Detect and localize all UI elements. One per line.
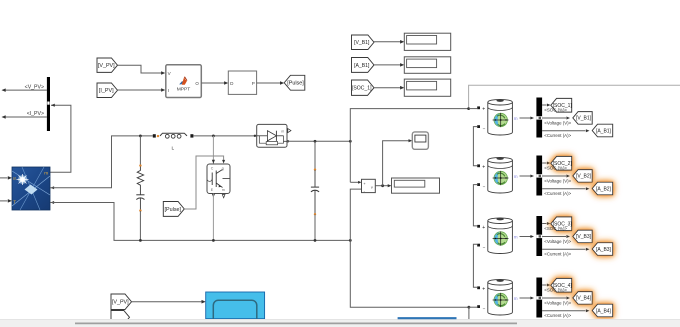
- wire: junction to battery1 +: [469, 108, 477, 110]
- wire: PV + up to top rail: [50, 136, 153, 188]
- goto tag SOC_1: [551, 98, 573, 112]
- IGBT port label g: [222, 166, 224, 170]
- svg-text:[V_PV]: [V_PV]: [98, 63, 115, 69]
- scrollbar thumb: [75, 322, 517, 324]
- voltage measurement block VM1: [362, 179, 376, 193]
- PV port label m: [44, 171, 48, 176]
- wire: VM1 output to scope: [383, 139, 413, 186]
- node: junction at output capacitor: [314, 140, 317, 143]
- PV voltage scope block (cyan): [206, 292, 265, 319]
- battery block B2: [488, 157, 513, 193]
- wire: battery B2 m to bus selector: [520, 174, 535, 177]
- wire: diode output rail: [287, 140, 350, 142]
- svg-text:<SOC (%)>: <SOC (%)>: [544, 166, 567, 171]
- node: rail junction at RC branch: [139, 135, 142, 138]
- goto tag A_B2: [592, 182, 613, 195]
- svg-text:T: T: [13, 199, 16, 204]
- wire: A_B1 signal: [542, 129, 589, 132]
- goto tag SOC_4: [551, 278, 573, 292]
- signal label Current (A) row 2: [544, 191, 571, 196]
- bus selector row 2: [536, 156, 542, 196]
- goto tag V_B4: [573, 292, 592, 305]
- wire: V_PV output to left edge: [2, 88, 47, 92]
- node: junction diode rail / measure vertical: [349, 140, 352, 143]
- node: bottom rail at RC branch: [139, 239, 142, 242]
- node: rail junction at IGBT branch: [212, 135, 215, 138]
- wire: SOC_4 signal: [542, 283, 550, 286]
- wire: A_B1 to display: [374, 63, 404, 67]
- svg-text:[A_B1]: [A_B1]: [354, 63, 370, 69]
- signal label SOC (%) row 2: [544, 166, 567, 171]
- resistor R (input branch): [137, 167, 143, 190]
- signal label SOC (%) row 1: [544, 108, 567, 113]
- goto tag A_B4: [592, 304, 613, 317]
- signal label Current (A) row 1: [544, 133, 571, 138]
- display block D2: [404, 57, 450, 74]
- PWM generator block D/P: [228, 71, 256, 94]
- MPPT port label O: [195, 81, 199, 86]
- battery block B4: [488, 279, 513, 315]
- svg-text:<Current (A)>: <Current (A)>: [544, 313, 571, 318]
- wire: RC branch to bottom rail: [139, 211, 141, 240]
- wire: battery4 - junction stub down: [468, 307, 470, 319]
- svg-text:<Voltage (V)>: <Voltage (V)>: [544, 178, 571, 183]
- svg-text:g: g: [222, 166, 224, 170]
- PV + port marker: [51, 186, 55, 189]
- svg-text:m: m: [281, 129, 284, 133]
- canvas bottom strip: [0, 319, 680, 327]
- signal label SOC (%) row 3: [544, 226, 567, 231]
- blue block edge peeking above strip: [398, 317, 457, 319]
- inductor L right port: [190, 134, 193, 137]
- signal label Current (A) row 4: [544, 313, 571, 318]
- node: battery4 - junction: [468, 306, 471, 309]
- bus selector row 4: [536, 278, 542, 318]
- display block D1: [404, 33, 450, 50]
- wire: SOC_1 to display: [374, 86, 404, 90]
- signal label Current (A) row 3: [544, 252, 571, 257]
- wire: SOC_1 signal: [542, 103, 550, 106]
- bus selector row 1: [536, 98, 542, 138]
- IGBT port label E: [211, 188, 214, 192]
- wire: A_B2 signal: [542, 187, 589, 190]
- wire: VM1 output to display: [375, 184, 391, 187]
- IGBT m unconnected arrow: [222, 195, 225, 198]
- wire: Pulse tag to IGBT gate: [184, 156, 225, 209]
- svg-text:−: −: [483, 127, 486, 132]
- display block D3: [404, 79, 450, 96]
- RC branch top port (orange): [139, 164, 141, 166]
- svg-text:I: I: [168, 88, 169, 93]
- svg-text:[A_B4]: [A_B4]: [596, 308, 612, 314]
- svg-text:[V_B3]: [V_B3]: [576, 234, 592, 240]
- svg-text:Ir: Ir: [13, 176, 16, 181]
- IGBT block Q1: [207, 164, 230, 194]
- wire: SOC_3 signal: [542, 222, 550, 225]
- wire: battery 1-2 series link: [473, 127, 477, 166]
- MPPT port label V: [168, 71, 172, 76]
- MPPT port label I: [168, 88, 169, 93]
- svg-text:−: −: [483, 245, 486, 250]
- node: bottom rail at cap branch: [314, 239, 317, 242]
- svg-text:+: +: [482, 164, 485, 170]
- wire: battery 3-4 series link: [473, 244, 477, 287]
- svg-text:m: m: [514, 296, 518, 301]
- wire: Ir input from left edge: [0, 176, 12, 180]
- wire: battery B3 m to bus selector: [520, 235, 535, 238]
- diode block D1: [257, 124, 287, 147]
- IGBT port label C: [211, 166, 214, 170]
- svg-text:<V_PV>: <V_PV>: [25, 84, 44, 90]
- signal label Voltage (V) row 1: [544, 120, 571, 125]
- input RC branch: wire from rail: [139, 136, 141, 165]
- bus selector row 3: [536, 216, 542, 256]
- wire: rail to IGBT collector: [212, 136, 215, 164]
- from tag V_PV (MPPT input): [97, 58, 118, 72]
- node: battery1 + junction: [467, 107, 470, 110]
- battery B1 m port label: [514, 116, 518, 121]
- battery B2 - port marker: [477, 183, 485, 189]
- svg-text:[V_PV]: [V_PV]: [112, 300, 129, 306]
- wire: SOC_2 signal: [542, 161, 550, 164]
- wire: MPPT O to PWM D: [201, 81, 228, 85]
- battery B4 - port marker: [477, 305, 485, 311]
- svg-text:m: m: [222, 188, 225, 192]
- goto tag V_B1: [573, 112, 592, 125]
- label L: [171, 146, 174, 152]
- svg-text:P: P: [252, 81, 255, 86]
- wire: DC+ node up and off right edge: [469, 85, 680, 108]
- node label I_PV: [27, 111, 44, 117]
- svg-text:<SOC (%)>: <SOC (%)>: [544, 288, 567, 293]
- wire: IGBT emitter to bottom rail: [212, 194, 215, 241]
- battery B4 + port marker: [477, 286, 485, 292]
- svg-text:<SOC (%)>: <SOC (%)>: [544, 226, 567, 231]
- svg-text:−: −: [483, 185, 486, 190]
- goto tag A_B1: [592, 124, 613, 137]
- svg-text:<Voltage (V)>: <Voltage (V)>: [544, 300, 571, 305]
- inductor L: [160, 133, 187, 138]
- diode m port label: [281, 129, 284, 133]
- battery B3 - port marker: [477, 244, 485, 250]
- svg-text:+: +: [482, 106, 485, 112]
- wire: A_B3 signal: [542, 248, 589, 251]
- svg-text:<Current (A)>: <Current (A)>: [544, 191, 571, 196]
- wire: V_PV tag to MPPT V: [118, 65, 166, 75]
- svg-text:v: v: [371, 185, 373, 189]
- wire: V_B1 signal: [542, 116, 570, 119]
- wire: V_B3 signal: [542, 235, 570, 238]
- signal label Voltage (V) row 2: [544, 178, 571, 183]
- battery block B3: [488, 218, 513, 254]
- svg-text:[V_B1]: [V_B1]: [576, 116, 592, 122]
- goto tag V_B2: [573, 170, 592, 183]
- PV array block: [12, 167, 50, 210]
- svg-text:[A_B1]: [A_B1]: [596, 128, 612, 134]
- wire: DC+ to battery string: [350, 109, 468, 142]
- svg-text:[SOC_1]: [SOC_1]: [352, 86, 372, 92]
- MPPT controller block U1: [166, 65, 202, 98]
- wire: battery B4 m to bus selector: [520, 296, 535, 299]
- battery B4 m port label: [514, 296, 518, 301]
- svg-text:O: O: [195, 81, 199, 86]
- battery block B1: [488, 99, 513, 135]
- svg-text:[A_B2]: [A_B2]: [596, 186, 612, 192]
- wire: V_B2 signal: [542, 174, 570, 177]
- svg-text:[Pulse]: [Pulse]: [165, 207, 182, 213]
- svg-text:MPPT: MPPT: [177, 87, 191, 93]
- signal label Voltage (V) row 3: [544, 239, 571, 244]
- node label V_PV: [25, 84, 44, 90]
- capacitor C out: [311, 170, 319, 214]
- svg-text:m: m: [514, 116, 518, 121]
- svg-text:m: m: [514, 174, 518, 179]
- bottom rail wire: [50, 203, 350, 241]
- scope block: [412, 132, 428, 149]
- node: bottom rail corner: [349, 239, 352, 242]
- wire: inductor to diode (top rail): [193, 135, 256, 137]
- output capacitor branch wire: [314, 141, 316, 169]
- from tag SOC_1 (display source): [352, 80, 375, 95]
- wire: return rail to battery4 -: [350, 240, 469, 307]
- diode output node: [287, 140, 289, 142]
- svg-text:[V_B2]: [V_B2]: [576, 174, 592, 180]
- display block DC voltage: [392, 178, 440, 193]
- diode m unconnected arrow: [288, 129, 291, 133]
- battery B2 m port label: [514, 174, 518, 179]
- wire: V_B1 to display: [374, 40, 404, 44]
- svg-text:m: m: [514, 235, 518, 240]
- goto tag SOC_3: [551, 217, 573, 231]
- output cap top port (orange): [314, 168, 316, 170]
- svg-text:[V_B1]: [V_B1]: [354, 40, 370, 46]
- MPPT text label: [177, 87, 191, 93]
- wire: DC+ vertical to voltage measurement +: [350, 141, 361, 183]
- diode input node: [254, 135, 256, 137]
- wire: voltage measurement - to bottom rail: [350, 189, 361, 240]
- output cap bottom port (orange): [314, 213, 316, 215]
- wire: V_PV to PV scope: [132, 300, 206, 304]
- svg-text:<I_PV>: <I_PV>: [27, 111, 44, 117]
- RC branch bottom port (orange): [139, 209, 141, 211]
- wire: junction to battery4 -: [469, 306, 477, 308]
- battery B3 m port label: [514, 235, 518, 240]
- svg-text:[V_B4]: [V_B4]: [576, 296, 592, 302]
- IGBT port label m: [222, 188, 225, 192]
- inductor L left port: [153, 134, 159, 137]
- svg-text:[I_PV]: [I_PV]: [99, 88, 114, 94]
- svg-text:<Voltage (V)>: <Voltage (V)>: [544, 120, 571, 125]
- svg-text:<Current (A)>: <Current (A)>: [544, 133, 571, 138]
- wire: battery 2-3 series link: [473, 185, 477, 226]
- from tag A_B1 (display source): [352, 58, 375, 73]
- from tag Pulse (gate drive): [163, 202, 184, 217]
- battery B1 + port marker: [477, 106, 485, 112]
- wire: V_B4 signal: [542, 296, 570, 299]
- node: bottom rail at IGBT branch: [212, 239, 215, 242]
- svg-text:<SOC (%)>: <SOC (%)>: [544, 108, 567, 113]
- capacitor C (input branch): [136, 189, 144, 210]
- battery B1 - port marker: [477, 125, 485, 131]
- goto tag A_B3: [592, 243, 613, 256]
- svg-text:<Current (A)>: <Current (A)>: [544, 252, 571, 257]
- PV port label T: [13, 199, 16, 204]
- from tag V_B1 (display source): [352, 35, 375, 50]
- bus selector B0 (PV measurements): [47, 77, 50, 131]
- svg-text:+: +: [482, 286, 485, 292]
- from tag I_PV (MPPT input): [97, 83, 118, 98]
- svg-text:+: +: [482, 225, 485, 231]
- goto tag SOC_2: [551, 156, 573, 170]
- node: VM1 output junction: [381, 184, 384, 187]
- wire: A_B4 signal: [542, 309, 589, 312]
- goto tag V_B3: [573, 230, 592, 243]
- signal label Voltage (V) row 4: [544, 300, 571, 305]
- svg-text:[A_B3]: [A_B3]: [596, 247, 612, 253]
- svg-text:m: m: [44, 171, 48, 176]
- wire: T input from left edge: [0, 199, 12, 203]
- wire: output cap to bottom rail: [314, 215, 316, 241]
- svg-text:−: −: [483, 307, 486, 312]
- svg-text:<Voltage (V)>: <Voltage (V)>: [544, 239, 571, 244]
- svg-text:[Pulse]: [Pulse]: [287, 81, 304, 87]
- wire: I_PV output to left edge: [2, 115, 47, 119]
- battery B2 + port marker: [477, 164, 485, 170]
- wire: battery B1 m to bus selector: [520, 116, 535, 119]
- PV - port marker: [51, 201, 55, 204]
- goto tag Pulse: [284, 75, 305, 90]
- partially visible from tag (clipped): [111, 311, 130, 325]
- wire: I_PV tag to MPPT I: [118, 88, 166, 92]
- from tag V_PV (bottom scope source): [111, 294, 132, 310]
- signal label SOC (%) row 4: [544, 288, 567, 293]
- wire: PV m output to bus selector: [50, 104, 71, 173]
- svg-text:C: C: [211, 166, 214, 170]
- wire: PWM P to Pulse goto: [257, 81, 285, 85]
- svg-text:L: L: [171, 146, 174, 152]
- PV port label Ir: [13, 176, 16, 181]
- battery B3 + port marker: [477, 225, 485, 231]
